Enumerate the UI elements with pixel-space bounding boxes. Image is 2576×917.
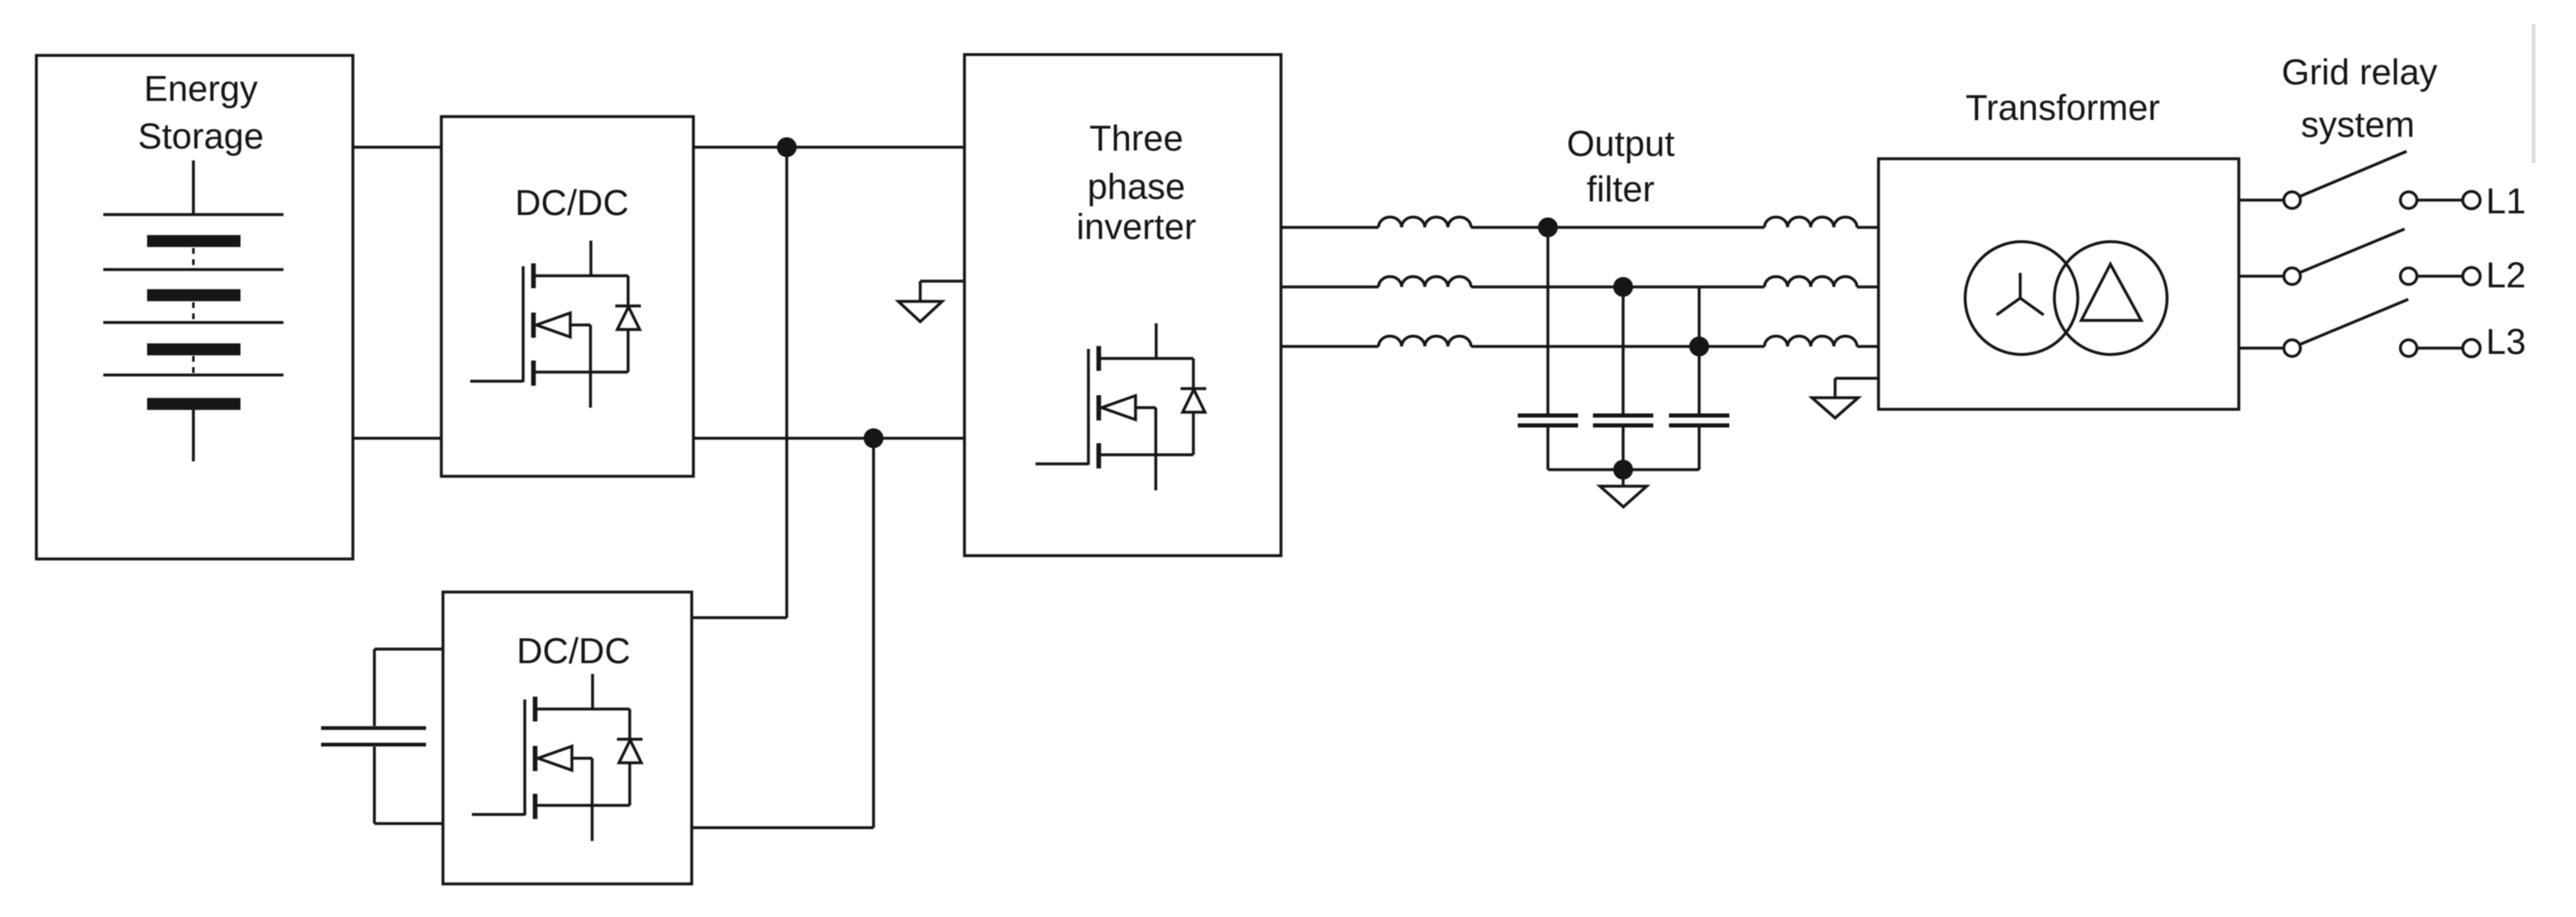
svg-text:Output: Output [1567,125,1675,165]
svg-text:Storage: Storage [138,117,264,157]
svg-text:L1: L1 [2486,182,2526,222]
svg-text:L3: L3 [2486,322,2526,362]
svg-text:L2: L2 [2486,256,2526,296]
svg-text:filter: filter [1587,170,1655,210]
svg-text:phase: phase [1088,168,1186,208]
svg-text:DC/DC: DC/DC [517,632,631,671]
svg-text:Transformer: Transformer [1965,88,2159,128]
svg-text:Energy: Energy [144,69,258,109]
svg-text:DC/DC: DC/DC [515,184,629,223]
svg-text:system: system [2301,106,2415,146]
svg-text:Three: Three [1089,119,1183,159]
svg-text:inverter: inverter [1076,208,1196,247]
svg-text:Grid relay: Grid relay [2282,53,2438,93]
